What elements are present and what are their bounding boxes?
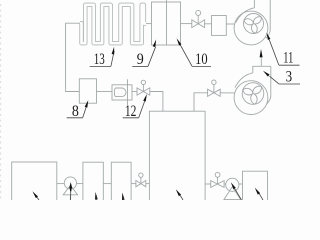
leader arrow into tank A xyxy=(32,191,39,200)
leader arrow at pump P1 xyxy=(69,182,72,200)
svg-text:3: 3 xyxy=(286,69,293,86)
wire: tank D top right stub to valve xyxy=(194,93,208,111)
divider of box 9/10 with top stub xyxy=(166,0,168,45)
wire: box C to valve V3 xyxy=(131,183,136,185)
control valve V2b (before fan 3) xyxy=(208,80,221,96)
wire: small box to fan 11 xyxy=(226,23,234,25)
wire: tank D to valve V4 xyxy=(205,183,211,185)
wire: valve to tank D top left stub xyxy=(150,92,163,112)
fan 11 (top right) xyxy=(234,0,270,45)
pump P1 xyxy=(63,177,77,200)
dryer box 9 / 10 xyxy=(152,2,181,45)
scan edge dashes left xyxy=(0,4,2,200)
stem from flow arrow to duct xyxy=(260,58,262,66)
wire: tank A to pump P1 xyxy=(57,183,65,185)
flame arrester 12 xyxy=(112,79,132,105)
svg-text:9: 9 xyxy=(137,51,144,68)
svg-text:11: 11 xyxy=(283,50,293,67)
control valve V2a (top, after box 10) xyxy=(192,10,205,27)
label 11 xyxy=(267,33,300,67)
svg-text:13: 13 xyxy=(94,51,105,68)
wire: valve V4 to pump P2 xyxy=(224,183,226,185)
pump P2 xyxy=(224,178,241,199)
leader arrow into box B xyxy=(95,192,98,200)
wire: coil outlet to box 9 xyxy=(145,23,152,25)
control valve V1 (after arrester 12) xyxy=(137,80,150,95)
leader arrow into box E xyxy=(255,188,263,200)
wire: pump P1 to box B xyxy=(77,183,83,185)
box C xyxy=(111,162,131,202)
leader arrow at pump P2 xyxy=(231,182,242,200)
svg-text:10: 10 xyxy=(195,51,208,68)
tank D central xyxy=(149,111,205,201)
label 8 xyxy=(67,100,89,120)
wire: arrester 12 to valve xyxy=(132,91,137,93)
label 13 xyxy=(90,47,115,68)
leader arrow into tank D xyxy=(176,189,183,200)
box B xyxy=(83,162,103,202)
control valve V3 (bottom, before tank D) xyxy=(136,173,146,187)
flow arrow up between fans xyxy=(260,49,263,57)
wire: box 10 to valve xyxy=(181,23,192,25)
leader arrow into box C xyxy=(122,193,125,201)
tank A bottom left xyxy=(12,162,57,202)
wire: valve V3 to tank D xyxy=(146,183,150,185)
box 8 xyxy=(79,79,96,103)
small box 14 xyxy=(212,16,227,36)
wire: valve to small box xyxy=(205,23,212,25)
label 9 xyxy=(132,40,156,69)
wire: valve to fan 3 xyxy=(220,92,234,94)
box E bottom right xyxy=(243,171,268,201)
wire: pump P2 to box E xyxy=(239,183,243,185)
wire: coil inlet corner xyxy=(66,23,80,91)
wire: box 8 to arrester 12 xyxy=(97,91,113,93)
label 10 xyxy=(177,38,211,68)
fan 3 (right middle) xyxy=(234,58,271,114)
wire: box B to box C xyxy=(103,183,111,185)
heat exchange coil 13 xyxy=(80,5,146,43)
control valve V4 (bottom, after tank D) xyxy=(211,172,224,187)
label 3 xyxy=(263,69,300,86)
label 12 xyxy=(123,94,147,120)
